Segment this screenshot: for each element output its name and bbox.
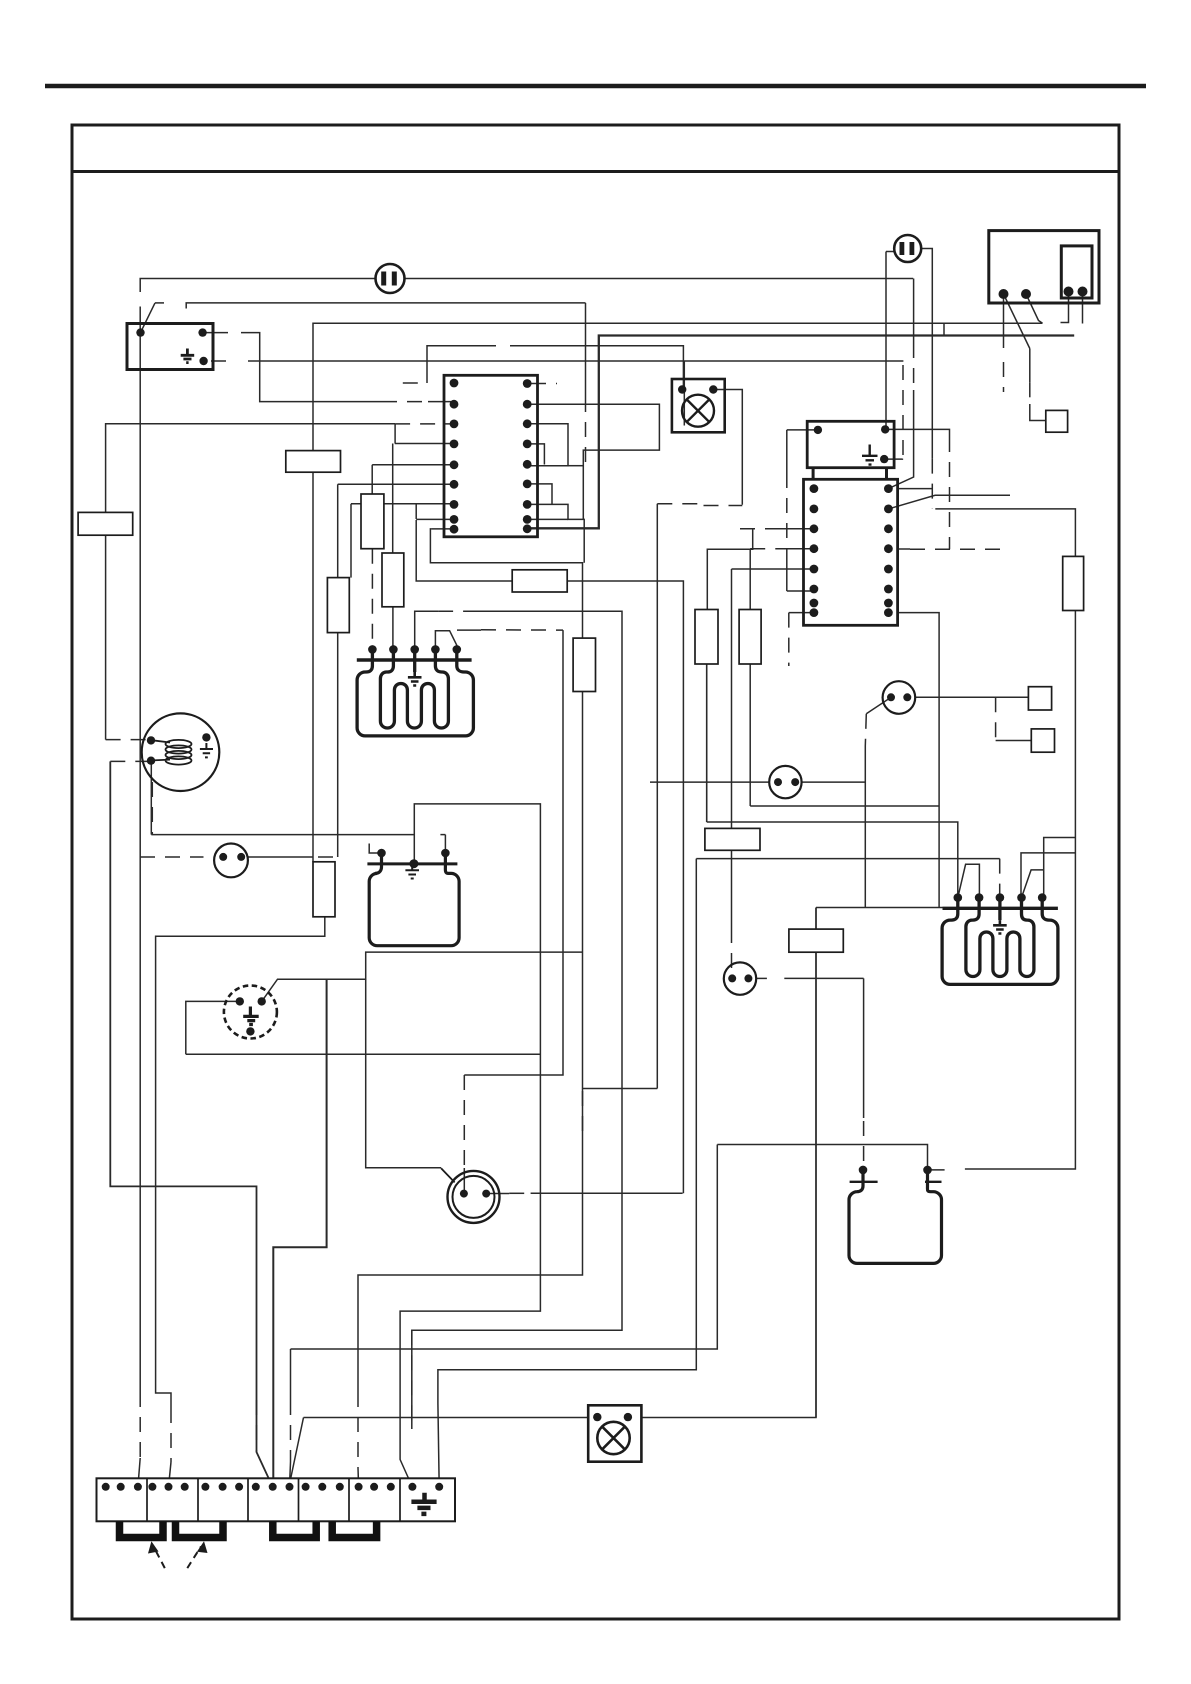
wire V x=273.3 [273, 979, 326, 1487]
resistor Rb [382, 553, 404, 607]
wire lamp TR right dot drop [713, 390, 742, 505]
wire dashed x=585.5 lower [585, 397, 587, 466]
thermostat T3 (lower circle) [724, 962, 756, 994]
thermal cutout TC1 [214, 844, 248, 878]
wire dashed pin2 row gap [382, 401, 428, 403]
wire CN2 left pin rows [778, 528, 814, 530]
thermostat T2 (mid circle) [769, 766, 801, 798]
wire relay right dot net [885, 429, 949, 437]
relay K1 box [807, 421, 894, 479]
wire CN2 pin3 chain [707, 529, 752, 610]
wire switch line y=302.9 [186, 303, 585, 309]
wire CN2 pin8 drop [898, 613, 940, 908]
small square SQm2 [1031, 729, 1054, 752]
wire grill2 levers [958, 864, 980, 897]
wire dashed fuse B drop lower [931, 459, 933, 509]
wire thermo1 lever chain [866, 697, 891, 714]
resistor Rd [313, 862, 335, 917]
lamp L1 (oven lamp top) [672, 379, 725, 432]
wire dashed grill1 dot3 H mid [438, 610, 478, 612]
wire el2 right dot [928, 1169, 945, 1171]
wire thermo1 right [915, 696, 1028, 698]
wire dashed R_a bottom [371, 549, 373, 650]
WIRES_DASHED [106, 343, 1030, 1468]
wire CN1 pin1 top [427, 346, 496, 383]
wire sq1 feed [1029, 349, 1031, 383]
wire R_h top feed [749, 549, 751, 610]
wire el2 left dot riser [863, 978, 865, 1118]
heating element grill1 (inner grill) [357, 645, 474, 736]
connector 3pin P1 [224, 986, 277, 1039]
wire el3 gnd riser and y=804 [400, 804, 540, 1487]
fuse F1 (neon indicator) [376, 264, 405, 293]
label box B [512, 570, 567, 592]
wire dashed x=731.5 lower [731, 928, 733, 978]
wire dashed relay right net [949, 437, 951, 549]
connector CN1 [444, 375, 538, 537]
wire y=1054 [186, 1053, 541, 1055]
wire probe right [489, 1193, 509, 1195]
wire grill2 dot1 riser [707, 822, 958, 898]
wire dashed fan feeds [106, 739, 151, 741]
wire dashed x=140.2 lower [139, 1392, 141, 1460]
wire grill2 dot5 riser [1044, 838, 1076, 898]
fuse F2 (neon indicator) [894, 235, 921, 262]
wire dashed-to x563 drop to probe [464, 630, 563, 1075]
wire switch NO dot right to pin2 [203, 332, 228, 334]
clock/timer box (top right) [989, 231, 1099, 303]
wire y=1144.5 [717, 1145, 927, 1170]
wire grey y=371.2 fan feed [106, 424, 396, 740]
wire fuse B left drop [885, 252, 887, 430]
wire relay left dot [787, 429, 818, 431]
wire dashed el2 left riser gap [863, 1121, 865, 1170]
wire dashed pin8 riser [415, 504, 417, 520]
heating element el2 (right lower) [849, 1166, 942, 1264]
wire relay lower dot riser [884, 458, 902, 461]
heating element el3 (oven bottom left) [367, 849, 459, 946]
wire 3pin right dot riser [262, 952, 583, 1001]
ground in S1 [181, 349, 195, 363]
wire dashed x=582.5 gap [582, 1091, 584, 1141]
wire CN1 right pin2 snake [527, 404, 659, 519]
switch S1 (door switch box) [127, 324, 213, 370]
wire dashed sq-mid link [995, 697, 997, 740]
wire CN1 right pin7-8 [527, 504, 584, 562]
resistor Rc [327, 578, 349, 633]
wire dashed probe right gap [509, 1192, 530, 1194]
resistor Ra [361, 494, 384, 549]
wire CN1 right pin6 stub [527, 484, 552, 505]
wire fuse B stubs [886, 251, 894, 253]
resistor Rg [1063, 556, 1084, 610]
wire pin8 riser to label B [416, 520, 683, 1193]
wire mid circle to CN2 pin5 drop [731, 569, 733, 928]
wire H y=509 to resistor R_g [935, 509, 1075, 557]
wire R_g bottom to grill2 dot4 [1021, 853, 1075, 898]
thermostat T1 (top right circle) [883, 681, 916, 714]
wire y=1088.5 [583, 1088, 658, 1090]
heating element grill2 (top grill right) [942, 893, 1058, 984]
wire dashed thermal cutout right hook [318, 856, 338, 858]
wire y=323.5 bus [313, 323, 1043, 862]
outer frame [72, 125, 1119, 1619]
wire R_c chain [337, 484, 339, 577]
lamp L2 (bottom) [588, 1405, 641, 1461]
wire dashed thermal cutout left [140, 856, 204, 858]
wire dashed strip diag x=256.5 [256, 1400, 258, 1452]
wire CN2 right pin4 stub [898, 548, 910, 550]
wire dashed CN2 pin4 left [750, 548, 775, 550]
wire dashed grill1 lever H [481, 629, 563, 631]
wire dashed sq1 riser [1029, 382, 1031, 404]
top rule [45, 84, 1146, 89]
connector CN2 [804, 479, 898, 625]
wire V x=585.5 from y=303 [585, 303, 587, 397]
wire fan dot2 drop [150, 761, 152, 835]
resistor Rf [695, 610, 718, 665]
resistor Rh [739, 610, 761, 665]
label box A [286, 451, 341, 473]
wire sq-mid2 feed [996, 740, 1032, 742]
wire dashed CN2 pin8 left drop [788, 613, 790, 666]
wire el3 dot stubs [369, 844, 381, 854]
wire dashed CN1 right pin1 stub [531, 383, 557, 385]
label box C [705, 828, 760, 850]
wire rect R_f bottom [706, 664, 708, 822]
small square SQm1 [1028, 687, 1051, 710]
wire dashed x=411.8 bottom [411, 1330, 413, 1429]
commoning links under TB [120, 1521, 377, 1537]
wire dashed x=913.6 gap [913, 343, 915, 390]
wire thermo2 mid circle left [650, 781, 769, 783]
wire dashed pin3 row [395, 423, 454, 425]
label box D [789, 929, 843, 952]
wire dashed x=903.4 to relay [902, 365, 904, 455]
WIRES_SOLID [106, 249, 1083, 1488]
resistor Re [573, 638, 595, 691]
wire y=1417.5 [304, 1417, 589, 1419]
wire V x=913.6 to CN2 pin1 [913, 279, 915, 344]
wire dashed dot1 tail [1003, 362, 1005, 392]
link arrows [154, 1547, 202, 1569]
wire dashed x=152.3 [151, 782, 153, 835]
wire dashed CN2 pin3 left [740, 528, 778, 530]
wire grill1 dot3 riser [415, 611, 438, 649]
terminal strip TB [97, 1478, 456, 1521]
wire dashed lamp TR lower [704, 505, 743, 507]
wire V x=110.3 fan dot2 [110, 761, 272, 1487]
wire grill2 dot3 gnd riser [696, 858, 999, 860]
ground in TB [411, 1493, 436, 1514]
wire gnd dot y=361 [211, 360, 226, 362]
wire dashed pin1 stub [403, 382, 427, 384]
wire R_b chain [392, 444, 394, 554]
wire V x=657.3 long [656, 504, 658, 1089]
wire thermo3 bottom circle [757, 977, 767, 979]
wire 3pin left dot [186, 1001, 240, 1054]
wire switch lever [141, 303, 156, 333]
small square SQ1 [1046, 410, 1068, 432]
wire top-right box dot wires [1003, 294, 1005, 348]
wire dashed relay V mid [786, 473, 788, 560]
label box left [78, 512, 133, 535]
wire dashed thermo1 lever drop [865, 714, 866, 746]
wire thermal cutout right [248, 856, 313, 858]
probe socket P2 (double circle) [441, 1168, 499, 1223]
wire dashed probe top [463, 1075, 465, 1168]
wire dashed grill2 gnd drop [999, 859, 1001, 898]
wire R_a chain [371, 465, 373, 494]
wire CN2 right pin2 diag [888, 495, 1010, 509]
header separator [72, 170, 1119, 173]
wire grill1 dot4-5 lever [435, 631, 457, 650]
wire label D vert x=815.5 upper [815, 908, 817, 1418]
wire CN1 pin9 right riser [527, 336, 1074, 529]
wire CN1 left pin rows [395, 443, 454, 445]
fan motor M1 [142, 713, 220, 791]
wire switch-bus drop R_d chain [156, 917, 325, 1408]
wire left V x=140.2 drop [139, 333, 141, 1392]
wire CN1 pin9 chain to R_e [430, 529, 582, 638]
wire CN1 right pin3-5 link [527, 424, 568, 466]
wire L1 top: y=278.5 through fuse A [140, 279, 375, 293]
